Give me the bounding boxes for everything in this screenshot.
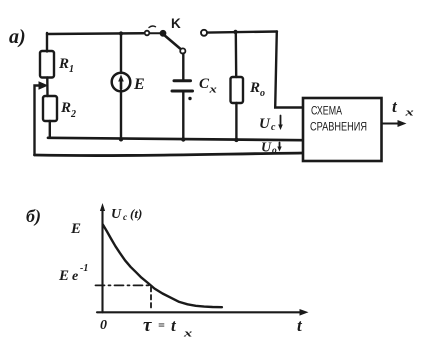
svg-text:x: x [404,106,414,118]
svg-text:R: R [60,100,71,116]
svg-text:e: e [72,269,78,284]
svg-text:K: K [171,16,181,31]
svg-text:б): б) [26,206,41,227]
svg-text:o: o [272,146,277,156]
svg-text:E: E [58,268,69,284]
svg-text:E: E [70,221,81,237]
svg-text:U: U [259,116,271,132]
svg-text:0: 0 [100,318,107,333]
svg-text:t: t [171,316,177,335]
svg-text:R: R [249,80,260,96]
svg-text:U: U [111,207,122,222]
svg-text:τ: τ [143,315,152,336]
svg-text:=: = [158,318,165,332]
svg-text:C: C [199,76,210,92]
svg-text:1: 1 [69,64,74,75]
svg-text:СРАВНЕНИЯ: СРАВНЕНИЯ [310,122,367,134]
svg-text:c: c [271,122,276,133]
svg-text:a): a) [9,26,26,48]
svg-text:t: t [392,97,398,116]
svg-text:2: 2 [70,109,76,120]
svg-text:o: o [260,88,265,99]
svg-text:U: U [261,141,272,156]
svg-text:(t): (t) [130,206,142,221]
svg-text:E: E [133,76,145,93]
svg-text:x: x [208,84,216,95]
svg-text:-1: -1 [80,263,88,274]
svg-text:R: R [58,56,69,72]
svg-text:t: t [297,316,303,335]
svg-text:c: c [123,213,128,223]
svg-text:x: x [183,327,193,339]
svg-text:СХЕМА: СХЕМА [311,106,342,118]
